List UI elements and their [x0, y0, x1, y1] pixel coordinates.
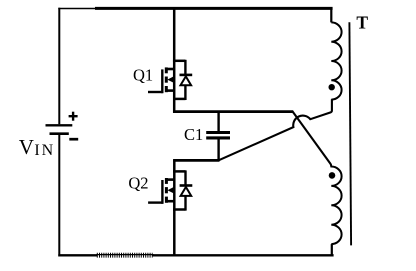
- Q2 source/drain bus: [173, 170, 176, 211]
- wire left rail upper: [58, 8, 60, 125]
- Q1 body diode cathode bar: [180, 74, 193, 77]
- Q2 source wire: [173, 210, 176, 257]
- svg-text:V: V: [19, 135, 34, 159]
- svg-text:T: T: [356, 13, 368, 33]
- Q2 drain stub: [166, 178, 174, 181]
- Q2 body diode triangle: [181, 187, 192, 196]
- Q2 source loop: [173, 208, 185, 211]
- wire bottom rail left: [58, 254, 97, 256]
- Q2 body diode top branch: [184, 170, 186, 185]
- Q1 channel source contact: [165, 86, 168, 92]
- Q2 drain wire: [173, 159, 176, 172]
- svg-text:C1: C1: [184, 125, 203, 144]
- bottom winding coil: [331, 164, 342, 244]
- svg-text:Q2: Q2: [128, 174, 148, 193]
- C1 bottom plate: [206, 136, 230, 139]
- transistor Q1: [148, 8, 192, 113]
- Q2 body arrow: [167, 187, 174, 194]
- top winding coil: [331, 22, 341, 99]
- wire node A horizontal: [173, 110, 293, 113]
- wire node B horizontal: [173, 159, 219, 162]
- C1 top lead: [217, 113, 219, 132]
- C1 top plate: [206, 131, 230, 134]
- transformer T top winding polarity dot: [329, 84, 335, 90]
- transformer T primary top winding: [331, 8, 341, 100]
- Q1 gate lead: [148, 91, 163, 93]
- Q2 body diode cathode bar: [180, 184, 193, 187]
- Q2 gate plate: [161, 180, 163, 204]
- top winding top lead: [330, 8, 332, 23]
- wire bottom rail right: [153, 254, 334, 256]
- wire bottom rail ticked segment: [97, 254, 154, 257]
- battery VIN: [46, 112, 79, 140]
- wire top rail thin segment: [58, 8, 97, 10]
- wire top rail thick segment: [95, 7, 333, 10]
- Q1 body diode bottom branch: [184, 85, 186, 100]
- Q1 channel body contact: [165, 77, 168, 83]
- Q2 drain loop: [173, 170, 185, 173]
- Q1 body arrow: [167, 76, 174, 83]
- svg-text:Q1: Q1: [133, 65, 153, 84]
- Q1 body diode top branch: [184, 60, 186, 75]
- Q1 source loop: [173, 98, 185, 101]
- Q2 gate lead: [148, 201, 163, 203]
- transistor Q2: [148, 159, 192, 256]
- wire left rail lower: [58, 134, 60, 256]
- Q2 source stub: [166, 200, 174, 203]
- Q2 channel source contact: [165, 197, 168, 203]
- Q2 channel body contact: [165, 187, 168, 193]
- Q1 source/drain bus: [173, 60, 176, 113]
- Q2 channel drain contact: [165, 178, 168, 184]
- svg-text:IN: IN: [34, 142, 55, 159]
- Q1 drain wire: [173, 8, 176, 63]
- transformer T bottom winding polarity dot: [329, 172, 336, 179]
- Q2 body diode bottom branch: [184, 196, 186, 211]
- label VIN: [19, 135, 55, 159]
- C1 bottom lead: [217, 139, 219, 161]
- Q1 source stub: [166, 89, 174, 92]
- wire diagonal node B to top winding with hop: [219, 99, 332, 160]
- transformer T core: [349, 22, 351, 245]
- Q1 gate plate: [161, 69, 163, 93]
- wire diagonal node A to bottom winding: [292, 111, 330, 164]
- bottom winding bottom lead: [331, 244, 333, 256]
- Q1 drain loop: [173, 60, 185, 63]
- transformer T primary bottom winding: [331, 164, 342, 256]
- Q1 drain stub: [166, 68, 174, 71]
- Q1 body diode triangle: [181, 76, 192, 85]
- capacitor C1: [206, 113, 230, 162]
- Q1 channel drain contact: [165, 67, 168, 73]
